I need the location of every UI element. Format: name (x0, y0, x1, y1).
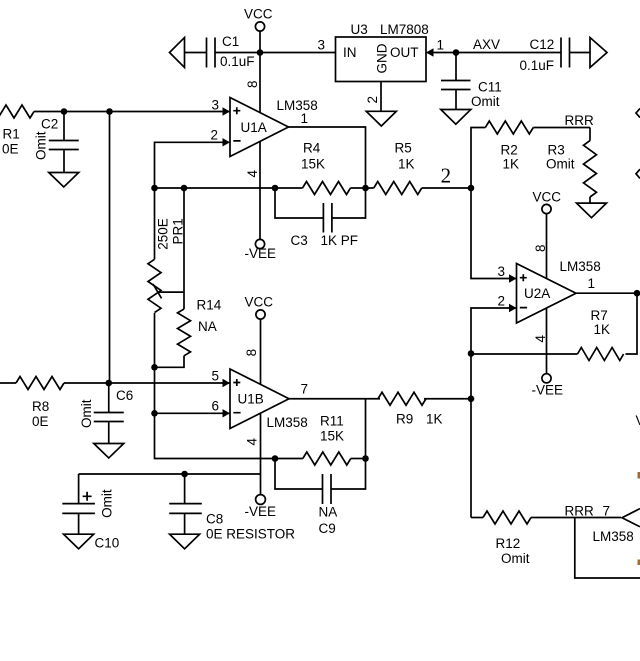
svg-text:1: 1 (437, 37, 445, 52)
svg-text:0.1uF: 0.1uF (520, 58, 555, 73)
svg-text:C1: C1 (222, 34, 239, 49)
svg-text:250E: 250E (156, 218, 171, 250)
wire pin 2 U2A (471, 308, 517, 354)
pin 3 arrowhead U2A (509, 274, 517, 282)
junction (468, 350, 475, 357)
svg-text:15K: 15K (320, 429, 344, 444)
svg-text:Omit: Omit (471, 94, 500, 109)
svg-text:LM7808: LM7808 (380, 22, 429, 37)
junction (468, 395, 475, 402)
svg-text:1: 1 (588, 276, 596, 291)
svg-text:R8: R8 (32, 399, 49, 414)
svg-text:5: 5 (212, 369, 220, 384)
svg-text:1K PF: 1K PF (321, 233, 359, 248)
svg-text:1K: 1K (398, 157, 415, 172)
partial glyph (right edge orange 2) (638, 560, 640, 566)
svg-text:3: 3 (212, 98, 220, 113)
svg-text:8: 8 (244, 349, 259, 357)
junction (362, 185, 369, 192)
wire pin 6 U1B (155, 412, 231, 414)
svg-text:0E RESISTOR: 0E RESISTOR (206, 527, 295, 542)
resistor R7 (471, 308, 624, 361)
wire (426, 52, 561, 54)
capacitor C1 (207, 34, 255, 69)
wire pin 2 U1A (155, 142, 231, 188)
pin 1 arrowhead U3 (426, 48, 434, 56)
svg-text:8: 8 (533, 244, 548, 252)
wire C10/C8 rail (79, 473, 261, 475)
svg-text:NA: NA (319, 505, 338, 520)
svg-text:VCC: VCC (245, 295, 274, 310)
svg-text:Omit: Omit (79, 399, 94, 428)
port arrow P2 (right of C12) (590, 38, 607, 68)
pin 6 arrowhead U1B (223, 409, 231, 417)
junction (272, 185, 279, 192)
wire (154, 367, 156, 413)
ground (C6) (94, 444, 124, 459)
svg-text:-VEE: -VEE (245, 504, 277, 519)
port arrow P1 (left of C1) (170, 38, 185, 68)
ground (U3) (366, 111, 396, 126)
wire pin8 U1A (259, 53, 261, 113)
junction (151, 364, 158, 371)
svg-text:RRR: RRR (565, 113, 594, 128)
capacitor C11 (441, 53, 502, 110)
svg-text:4: 4 (245, 170, 260, 178)
port arrow (right edge, lower) (636, 169, 640, 178)
svg-text:Omit: Omit (546, 157, 575, 172)
svg-text:LM358: LM358 (560, 259, 601, 274)
svg-text:R14: R14 (197, 298, 222, 313)
junction (106, 108, 113, 115)
svg-text:2: 2 (498, 294, 506, 309)
junction (151, 185, 158, 192)
wire U2A output (576, 293, 637, 354)
ground (C10) (64, 534, 94, 549)
capacitor C8 (169, 474, 295, 542)
svg-text:Omit: Omit (100, 489, 115, 518)
wire (long vertical to R8 node) (109, 112, 111, 384)
junction (181, 471, 188, 478)
node -VEE terminal (U2A) (532, 374, 564, 398)
svg-text:0.1uF: 0.1uF (220, 54, 255, 69)
wire pin 4 U1A (259, 142, 261, 240)
svg-text:IN: IN (343, 45, 357, 60)
junction (272, 455, 279, 462)
svg-text:U1A: U1A (241, 120, 267, 135)
svg-text:3: 3 (318, 37, 326, 52)
wire U1B output (289, 398, 471, 400)
svg-text:RRR: RRR (565, 504, 594, 519)
svg-text:1K: 1K (426, 412, 443, 427)
svg-text:7: 7 (603, 504, 611, 519)
op-amp U1A (230, 98, 318, 157)
wire (215, 52, 336, 54)
svg-text:VCC: VCC (244, 7, 273, 22)
svg-text:C11: C11 (478, 80, 502, 95)
capacitor C9 (275, 459, 366, 537)
svg-text:4: 4 (533, 335, 548, 343)
resistor R9 (378, 392, 443, 426)
svg-text:3: 3 (498, 264, 506, 279)
pin 7 wire down to R11 (365, 399, 367, 459)
svg-text:7: 7 (301, 381, 309, 396)
wire (351, 187, 374, 189)
svg-text:-VEE: -VEE (532, 383, 564, 398)
svg-text:-VEE: -VEE (245, 246, 277, 261)
svg-text:15K: 15K (301, 157, 325, 172)
svg-text:NA: NA (198, 319, 217, 334)
svg-text:U1B: U1B (238, 392, 264, 407)
svg-text:C3: C3 (291, 233, 308, 248)
resistor R8 (0, 377, 230, 430)
resistor R3 (546, 128, 597, 204)
capacitor C12 (520, 37, 570, 73)
junction (105, 380, 112, 387)
pin 2 wire U3 (380, 82, 382, 112)
svg-text:R11: R11 (320, 414, 344, 429)
capacitor C3 (275, 188, 366, 248)
capacitor C2 (34, 112, 79, 173)
pin 3 arrowhead U1A (223, 107, 231, 115)
pin 2 arrowhead U2A (509, 304, 517, 312)
resistor R2 (485, 121, 590, 172)
partial glyph (right edge orange) (638, 472, 640, 479)
wire pin 4 U1B (260, 414, 262, 495)
svg-text:V: V (636, 413, 640, 428)
wire (575, 518, 640, 579)
capacitor C10 (polarized) (62, 474, 119, 551)
svg-text:R2: R2 (501, 143, 518, 158)
svg-text:8: 8 (245, 80, 260, 88)
resistor R14 (155, 188, 222, 367)
junction (61, 108, 68, 115)
junction (181, 185, 188, 192)
svg-text:R5: R5 (395, 141, 412, 156)
ground (C2) (49, 173, 79, 188)
ground (C8) (170, 534, 200, 549)
junction (257, 49, 264, 56)
wire (34, 111, 230, 113)
svg-text:LM358: LM358 (267, 415, 308, 430)
junction (362, 455, 369, 462)
resistor R1 (0, 105, 34, 157)
svg-text:C2: C2 (41, 117, 58, 132)
svg-text:1K: 1K (594, 322, 611, 337)
junction (151, 410, 158, 417)
resistor R11 (303, 414, 366, 466)
svg-text:Omit: Omit (501, 551, 530, 566)
svg-text:LM358: LM358 (277, 98, 318, 113)
junction (468, 185, 475, 192)
svg-text:1: 1 (301, 111, 309, 126)
svg-text:GND: GND (375, 43, 390, 73)
svg-text:U3: U3 (351, 22, 368, 37)
wire (570, 52, 591, 54)
op-amp (partial, bottom right) (593, 509, 640, 544)
svg-text:2: 2 (441, 163, 452, 187)
capacitor C6 (79, 383, 133, 444)
svg-text:C12: C12 (530, 37, 555, 52)
pin 2 arrowhead U1A (223, 138, 231, 146)
wire pin 4 U2A (546, 308, 548, 373)
port arrow (right edge, upper) (636, 108, 640, 117)
svg-text:6: 6 (212, 399, 220, 414)
svg-text:OUT: OUT (390, 45, 419, 60)
op-amp U2A (517, 259, 601, 323)
node VCC terminal (U1B) (245, 295, 274, 385)
svg-text:R3: R3 (548, 143, 565, 158)
svg-text:R12: R12 (496, 536, 521, 551)
svg-text:R1: R1 (3, 127, 20, 142)
svg-text:R7: R7 (591, 308, 608, 323)
resistor R4 (301, 141, 351, 195)
ground (R3) (577, 203, 607, 218)
svg-text:2: 2 (211, 128, 219, 143)
node -VEE terminal (U1B) (245, 495, 277, 519)
junction (634, 290, 640, 297)
resistor R12 (471, 511, 621, 566)
node VCC terminal (U2A) (533, 190, 562, 279)
pin 5 arrowhead U1B (223, 379, 231, 387)
svg-text:C8: C8 (206, 512, 223, 527)
svg-text:R9: R9 (396, 412, 413, 427)
op-amp U1B (230, 369, 308, 430)
regulator U3 LM7808 (336, 22, 429, 82)
svg-text:1K: 1K (503, 157, 520, 172)
svg-text:C10: C10 (95, 536, 120, 551)
svg-text:C6: C6 (116, 388, 133, 403)
potentiometer PR1 (148, 188, 186, 367)
svg-text:R4: R4 (303, 141, 321, 156)
svg-text:4: 4 (245, 438, 260, 446)
wire (422, 187, 471, 189)
wire (470, 354, 472, 518)
node -VEE terminal (U1A) (245, 239, 277, 261)
svg-text:Omit: Omit (34, 131, 49, 160)
node VCC terminal (244, 7, 273, 53)
svg-text:C9: C9 (319, 521, 336, 536)
wire (155, 413, 303, 458)
svg-text:0E: 0E (32, 414, 49, 429)
wire net 2 to R2 and pin 3 U2A (471, 128, 517, 279)
svg-text:LM358: LM358 (593, 529, 634, 544)
svg-text:0E: 0E (2, 142, 19, 157)
wire (185, 52, 207, 54)
wire U1A output (289, 127, 366, 188)
junction (453, 49, 460, 56)
svg-text:U2A: U2A (524, 286, 550, 301)
svg-text:AXV: AXV (473, 37, 500, 52)
svg-text:VCC: VCC (533, 190, 562, 205)
resistor R5 (374, 141, 422, 195)
wire feedback rail U1A (155, 187, 303, 189)
svg-text:2: 2 (365, 96, 380, 104)
ground (C11) (441, 110, 471, 125)
